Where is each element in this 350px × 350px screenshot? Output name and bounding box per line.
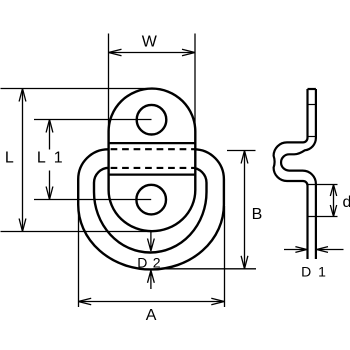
- dimension B arrow top: [241, 151, 248, 164]
- dimension A extension line left: [78, 206, 80, 307]
- dimension A extension line right: [224, 206, 226, 307]
- dimension D2 upper arrow (points down to ring inner bottom): [148, 232, 155, 251]
- D-ring inner outline: [94, 168, 207, 253]
- dimension D1 right arrow: [317, 247, 344, 253]
- dimension B extension line top: [227, 150, 256, 152]
- bottom screw hole: [136, 185, 166, 215]
- svg-text:D: D: [137, 254, 147, 270]
- svg-text:D: D: [301, 263, 311, 279]
- dimension B line: [244, 151, 246, 269]
- dimension A line: [78, 301, 224, 303]
- side view: top hole lower edge tick: [307, 136, 318, 138]
- dimension B extension line bottom: [164, 268, 256, 270]
- dimension W arrow right: [182, 49, 195, 56]
- dimension d extension line bottom: [308, 216, 338, 218]
- side view: plate profile outer edge: [274, 89, 308, 259]
- svg-text:1: 1: [318, 263, 326, 279]
- side view: top end cap: [308, 88, 316, 90]
- svg-text:d: d: [343, 194, 350, 211]
- svg-text:2: 2: [153, 254, 161, 270]
- dimension d arrow bottom: [330, 205, 336, 217]
- dimension d arrow top: [330, 185, 336, 197]
- dimension L arrow top: [19, 89, 26, 102]
- dimension L1 arrow top: [46, 120, 53, 133]
- svg-text:A: A: [146, 307, 157, 324]
- bridge top edge: [109, 142, 196, 144]
- svg-text:B: B: [252, 206, 263, 223]
- dimension L1 line lower segment: [49, 171, 51, 200]
- dimension W line: [109, 52, 196, 54]
- svg-text:W: W: [142, 34, 158, 51]
- dimension B arrow bottom: [241, 256, 248, 269]
- dimension L extension line top: [1, 88, 154, 90]
- dimension W extension line left: [108, 34, 110, 129]
- svg-text:L: L: [37, 150, 46, 167]
- svg-text:L: L: [5, 150, 14, 167]
- side view: top hole upper edge tick: [307, 104, 318, 106]
- hidden ring bar top edge (dashed): [111, 148, 195, 150]
- hidden ring bar bottom edge (dashed): [111, 167, 195, 169]
- dimension L1 arrow bottom: [46, 187, 53, 200]
- dimension L arrow bottom: [19, 219, 26, 232]
- mounting plate outline: [109, 89, 196, 232]
- dimension A arrow right: [211, 298, 224, 305]
- dimension L1 line upper segment: [49, 120, 51, 150]
- side view: plate profile inner edge: [281, 89, 316, 259]
- dimension D1 left arrow: [284, 247, 307, 253]
- dimension L1 extension line bottom (to bottom hole center): [34, 199, 151, 201]
- dimension A arrow left: [78, 298, 91, 305]
- D-ring outer outline: [78, 149, 224, 269]
- dimension L extension line bottom: [1, 231, 153, 233]
- dimension d extension line top: [308, 184, 338, 186]
- bridge bottom edge: [109, 174, 196, 176]
- top screw hole: [137, 105, 167, 135]
- dimension L1 extension line top (to top hole center): [34, 119, 152, 121]
- dimension W arrow left: [109, 49, 122, 56]
- dimension d line: [333, 185, 335, 217]
- dimension L line: [22, 89, 24, 232]
- svg-text:1: 1: [54, 150, 63, 167]
- dimension W extension line right: [194, 34, 196, 129]
- dimension D2 lower arrow (points up to ring outer bottom): [148, 270, 155, 289]
